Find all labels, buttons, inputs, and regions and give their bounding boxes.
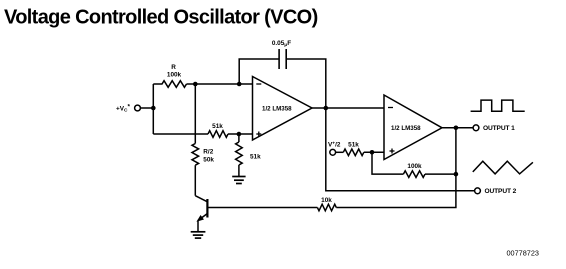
square wave icon [471, 100, 525, 111]
svg-text:0.05μF: 0.05μF [272, 40, 291, 48]
wire U2A output to OUTPUT 1 [442, 127, 473, 129]
svg-text:00778723: 00778723 [507, 249, 539, 258]
triangle wave icon [473, 161, 533, 174]
svg-text:100k: 100k [407, 163, 422, 170]
wire 10k to transistor base [208, 207, 317, 209]
svg-text:51k: 51k [250, 153, 261, 160]
wire 51k to U2A non-inverting input [364, 151, 384, 153]
resistor 51k to U1A non-inverting input [208, 123, 228, 137]
svg-text:OUTPUT 2: OUTPUT 2 [485, 188, 517, 195]
svg-text:R/2: R/2 [203, 148, 213, 155]
figure number 00778723 [507, 249, 539, 258]
transistor Q1 [195, 196, 207, 221]
wire feedback 100k branch [372, 152, 403, 174]
wire U1A output down to OUTPUT 2 line [326, 108, 475, 191]
wire 51k to ground [238, 165, 240, 177]
ground under 51k [232, 177, 245, 184]
svg-text:51k: 51k [212, 123, 223, 130]
wire 51k to op-amp U1A non-inverting input [228, 133, 253, 135]
capacitor C1 0.05uF [272, 40, 291, 69]
wire transistor emitter to ground [197, 221, 199, 232]
wire from +VC terminal to node [140, 107, 153, 109]
svg-text:100k: 100k [167, 72, 182, 79]
wire U1A output to U2A inverting input [312, 107, 384, 109]
resistor R 100k [153, 64, 186, 87]
wire capacitor feedback right branch [286, 59, 326, 108]
svg-text:R: R [171, 64, 176, 71]
terminal OUTPUT 2 [475, 188, 517, 195]
terminal V+/2 [328, 141, 341, 155]
svg-text:50k: 50k [203, 157, 214, 164]
svg-text:Voltage Controlled Oscillator: Voltage Controlled Oscillator (VCO) [4, 6, 318, 28]
wire +VC to 51k lower branch [153, 133, 208, 135]
terminal +VC input [116, 104, 140, 114]
wire U2A output down to base drive [336, 128, 456, 208]
wire R/2 to transistor collector [194, 165, 196, 196]
wire from R to op-amp U1A inverting input [187, 83, 253, 85]
resistor 51k from V+/2 [336, 141, 364, 155]
wire 100k to output node [425, 173, 456, 175]
terminal OUTPUT 1 [473, 125, 515, 132]
node at +VC branch [151, 106, 156, 111]
node at U2A output [454, 126, 459, 131]
op-amp U2A 1/2 LM358 [384, 95, 442, 160]
resistor 100k feedback [403, 163, 425, 177]
node at U1A inverting input [237, 82, 242, 87]
resistor 10k base [317, 197, 336, 211]
node at U1A non-inverting input [237, 132, 242, 137]
ground under transistor emitter [191, 232, 206, 238]
node A after R [193, 82, 198, 87]
op-amp U1A 1/2 LM358 [253, 77, 313, 141]
wire node A down through crossover [194, 84, 196, 144]
wire capacitor feedback left branch [239, 59, 279, 84]
svg-text:V+/2: V+/2 [328, 141, 341, 148]
node at 100k feedback join [454, 172, 459, 177]
resistor 51k to ground [236, 134, 262, 165]
node at U1A output [324, 106, 329, 111]
svg-text:51k: 51k [348, 141, 359, 148]
resistor R/2 50k [192, 144, 214, 166]
svg-text:1/2 LM358: 1/2 LM358 [262, 105, 292, 112]
wire vertical +VC branch [152, 84, 154, 134]
svg-text:10k: 10k [321, 197, 332, 204]
title Voltage Controlled Oscillator (VCO) [4, 6, 318, 28]
svg-text:+VC*: +VC* [116, 104, 130, 114]
svg-text:1/2 LM358: 1/2 LM358 [391, 125, 421, 132]
node at U2A non-inverting input [370, 150, 375, 155]
svg-text:OUTPUT 1: OUTPUT 1 [483, 125, 515, 132]
